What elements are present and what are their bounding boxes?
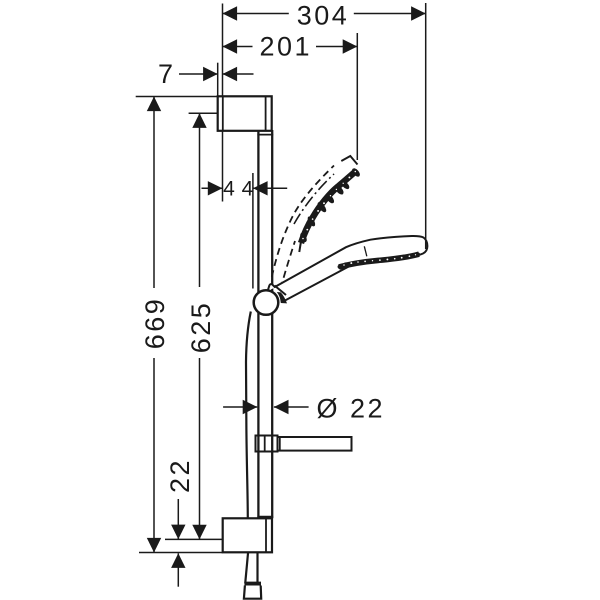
svg-text:Ø 22: Ø 22 xyxy=(317,393,386,423)
arrow dia22 right outside xyxy=(274,400,289,414)
extension line 625 bottom xyxy=(165,538,223,540)
wall bracket top xyxy=(218,96,272,131)
extension line 304 right xyxy=(425,3,427,249)
handle end cap line xyxy=(275,286,287,296)
extension line 201 right xyxy=(356,33,358,160)
label 625 xyxy=(186,301,216,354)
svg-text:625: 625 xyxy=(186,301,216,354)
svg-text:304: 304 xyxy=(297,1,350,31)
extension line 669 top xyxy=(136,96,218,98)
hose upper curve xyxy=(246,312,251,519)
dashed position spray face neck line xyxy=(299,240,301,252)
dashed shower centerline xyxy=(294,174,334,224)
dimension 304 line xyxy=(223,13,289,15)
extension line 44 left xyxy=(222,131,224,202)
arrow 7 right outside xyxy=(223,67,238,81)
extension line 625 top xyxy=(189,112,219,114)
arrow 669 bottom xyxy=(147,538,161,553)
dimension 625 line xyxy=(199,113,201,287)
extension line 44 right xyxy=(252,173,254,289)
arrow 44 left outside xyxy=(208,181,223,195)
dark wedge between holder and handle xyxy=(277,292,287,303)
soap dish bar xyxy=(278,437,352,451)
dimension 22 line upper xyxy=(177,499,179,539)
wall bracket bottom xyxy=(223,518,272,552)
arrow 304 right xyxy=(411,6,426,20)
extension line 7 left (bracket edge up) xyxy=(217,63,219,97)
dimension 22 line lower xyxy=(177,553,179,586)
svg-text:669: 669 xyxy=(140,297,170,350)
rail top end line under upper bracket xyxy=(257,134,273,136)
hand shower body (solid position) xyxy=(274,236,427,302)
svg-text:4 4: 4 4 xyxy=(223,177,254,200)
soap dish clamp xyxy=(256,436,278,452)
dimension 669 line xyxy=(153,97,155,289)
arrow 22 up outside xyxy=(171,553,185,568)
rail bottom end line above lower bracket xyxy=(257,516,273,518)
svg-text:201: 201 xyxy=(260,32,313,62)
dimension dia22 line xyxy=(223,406,257,408)
arrow 625 bottom xyxy=(192,525,206,540)
arrow 625 top xyxy=(192,113,206,128)
svg-text:7: 7 xyxy=(158,59,173,89)
dimension 44 line xyxy=(202,187,223,189)
hose end cap xyxy=(244,584,261,599)
spray face band solid position xyxy=(339,254,419,267)
arrow 44 right outside xyxy=(253,181,268,195)
dashed band lumps xyxy=(299,232,308,243)
dimension 7 line xyxy=(179,73,218,75)
arrow 201 right xyxy=(343,39,358,53)
arrow 669 top xyxy=(147,97,161,112)
dashed position head cap xyxy=(341,156,357,172)
dashed shower outline A (up position back edge) xyxy=(272,166,334,278)
holder nub xyxy=(268,284,276,291)
extension line 669 bottom xyxy=(139,552,223,554)
svg-text:22: 22 xyxy=(165,458,195,493)
dashed shower outline B (up position front edge) xyxy=(280,241,296,293)
hose lower segment xyxy=(245,552,257,583)
arrow 7 left outside xyxy=(203,67,218,81)
head detail tick xyxy=(364,246,367,256)
extension line wall plane (left of 304/201) xyxy=(222,4,224,97)
dashed position spray face band xyxy=(301,171,357,244)
arrow 201 left xyxy=(223,39,238,53)
rail right edge xyxy=(271,130,273,518)
holder circle xyxy=(254,290,279,315)
dimension 201 line xyxy=(223,46,253,48)
rail left edge xyxy=(257,130,259,518)
arrow 22 down outside xyxy=(171,525,185,540)
label 669 xyxy=(140,297,170,350)
label 22 rotated xyxy=(165,458,195,493)
arrow dia22 left outside xyxy=(243,400,258,414)
arrow 304 left xyxy=(223,6,238,20)
